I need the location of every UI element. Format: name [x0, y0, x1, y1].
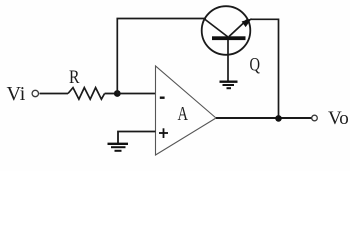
- svg-text:Vo: Vo: [328, 108, 349, 129]
- svg-text:A: A: [178, 103, 189, 125]
- svg-text:Q: Q: [250, 55, 261, 76]
- svg-text:R: R: [69, 67, 80, 88]
- svg-text:Vi: Vi: [7, 83, 26, 105]
